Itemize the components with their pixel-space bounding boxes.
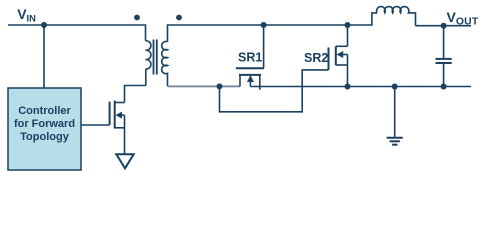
svg-text:SR1: SR1	[238, 51, 262, 65]
wire controller input drop	[43, 25, 45, 88]
wire secondary top rail	[168, 13, 378, 42]
node junction dot SR2 source	[345, 84, 351, 90]
node junction dot SR1 gate tap	[261, 22, 267, 28]
wire mid ground rail	[250, 86, 471, 88]
wire primary top rail from VIN to transformer primary	[8, 25, 146, 41]
node junction dot SR2 drain tap	[345, 22, 351, 28]
node VIN label	[17, 6, 36, 24]
wire ground drop	[394, 87, 396, 138]
transistor SR2	[329, 46, 348, 86]
transistor SR1 label	[238, 51, 262, 65]
node junction dot at VIN rail to controller tap	[41, 22, 47, 28]
node junction dot SW node	[217, 83, 223, 89]
transformer T1 primary phasing dot	[134, 15, 140, 21]
wire SR1 gate wire	[263, 25, 265, 68]
inductor L1	[377, 7, 416, 26]
wire secondary bottom to SR1 drain	[168, 85, 240, 87]
wire SR2 gate drive loop	[220, 70, 329, 112]
wire controller gate lead to Q1	[81, 124, 110, 126]
capacitor C1	[436, 26, 452, 87]
svg-text:Topology: Topology	[20, 131, 70, 143]
transformer T1 core	[153, 40, 155, 75]
transistor SR1	[236, 68, 264, 89]
wire SR2 drain wire	[347, 25, 349, 46]
node junction dot ground tap	[392, 84, 398, 90]
wire VOUT rail	[416, 25, 472, 27]
node junction dot cap bottom	[441, 84, 447, 90]
svg-text:VIN: VIN	[17, 6, 36, 24]
node VOUT label	[447, 9, 479, 28]
node junction dot VOUT cap top	[441, 23, 447, 29]
transformer T1 secondary winding	[162, 42, 168, 87]
svg-text:VOUT: VOUT	[447, 9, 479, 28]
transformer T1 secondary phasing dot	[176, 15, 182, 21]
transistor SR2 label	[304, 51, 328, 65]
wire primary bottom to Q1 drain	[125, 86, 146, 103]
svg-text:SR2: SR2	[304, 51, 328, 65]
controller U1 box	[8, 88, 81, 170]
transformer T1 primary winding	[146, 41, 151, 86]
svg-text:for Forward: for Forward	[14, 118, 75, 130]
transistor Q1	[110, 101, 125, 154]
svg-text:Controller: Controller	[18, 105, 71, 117]
ground triangle for Q1 source	[116, 154, 133, 168]
ground (earth) symbol	[387, 138, 403, 145]
